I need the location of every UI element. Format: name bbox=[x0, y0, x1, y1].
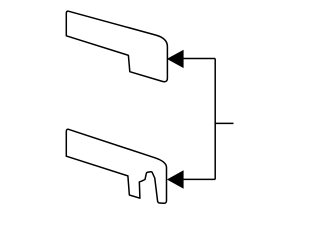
arrowhead pointing to part 1 bbox=[167, 50, 184, 68]
leader line from part 1 arrow bbox=[183, 58, 215, 60]
part 2: lower molding panel outline with notch and tab bbox=[66, 129, 166, 203]
arrowhead pointing to part 2 bbox=[167, 170, 184, 188]
bracket vertical line bbox=[214, 59, 216, 180]
bracket middle tick bbox=[215, 122, 233, 124]
leader line from part 2 arrow bbox=[183, 178, 215, 180]
part 1: upper molding panel outline bbox=[66, 11, 167, 82]
